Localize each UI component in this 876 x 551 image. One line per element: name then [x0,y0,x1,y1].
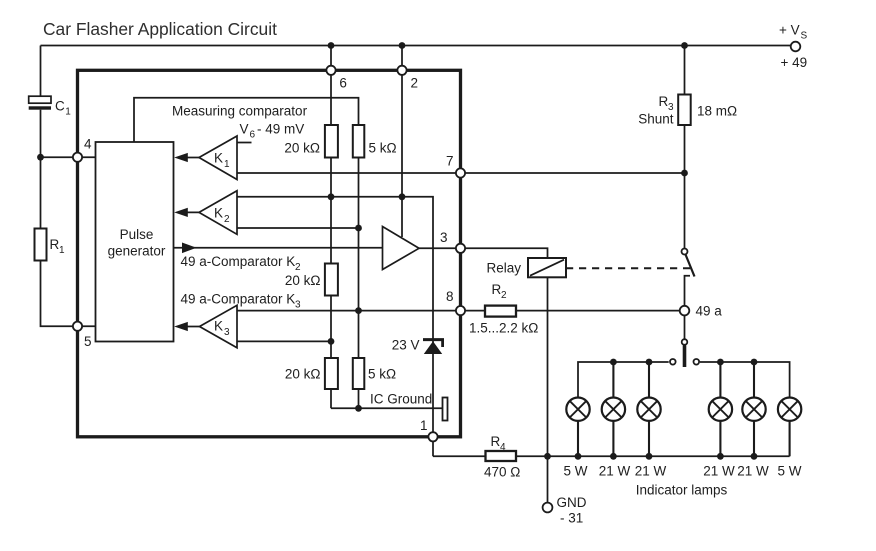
node junction K2bot-5k [355,225,362,232]
svg-text:3: 3 [440,230,448,245]
relay contact lever [686,255,695,277]
svg-text:R: R [50,237,60,252]
svg-text:20 kΩ: 20 kΩ [285,367,321,382]
svg-text:+ V: + V [779,23,800,38]
wire lamp2 top drop [612,362,614,398]
wire pin6 stem [330,46,332,126]
svg-text:3: 3 [224,327,230,338]
wire right lamp bus [700,362,790,398]
svg-text:1: 1 [59,245,65,256]
svg-text:R: R [491,434,501,449]
wire K3 bottom input [237,340,331,342]
svg-text:1: 1 [65,107,71,118]
resistor 5k top [353,125,365,158]
svg-text:1.5...2.2 kΩ: 1.5...2.2 kΩ [469,321,538,336]
wire lamp bottom drops [577,421,579,456]
svg-text:49 a: 49 a [696,304,723,319]
pin 3 [456,244,465,253]
svg-text:21 W: 21 W [737,464,769,479]
svg-text:4: 4 [84,137,92,152]
wire lamp5 top drop [753,362,755,398]
wire divider chain x=331 [330,125,332,408]
relay coil [528,258,566,277]
resistor 20k bottom [325,358,338,389]
svg-text:Car Flasher Application Circui: Car Flasher Application Circuit [43,19,277,39]
pin 8 [456,306,465,315]
node junction K2top-pin2 [399,193,406,200]
node junction K3bot-20k [328,338,335,345]
svg-text:S: S [801,31,808,42]
node junction K2top-20k [328,193,335,200]
svg-text:Pulse: Pulse [120,227,154,242]
svg-text:IC Ground: IC Ground [370,392,432,407]
wire left branch down to C1 [40,46,42,97]
resistor 5k bottom [353,358,365,389]
svg-text:R: R [492,282,502,297]
wire K1 output arrow [180,157,199,159]
wire pulse generator output to driver [174,247,383,249]
resistor R1 [35,229,47,261]
node junction icgnd-5k [355,405,362,412]
wire 5k chain x=358.5 [358,125,360,408]
resistor R3 shunt [684,46,686,249]
svg-text:4: 4 [500,442,506,453]
hazard switch pivot [682,339,688,345]
svg-text:Relay: Relay [486,261,521,276]
wire 49a to hazard switch [684,316,686,340]
wire supply rail top [41,45,791,47]
svg-text:6: 6 [339,76,347,91]
node 49a [680,306,690,316]
wire K2 output arrow [180,211,199,213]
node junction bus-lamp2 [610,359,617,366]
node junction bus lamp4 [717,453,724,460]
lamp L4 21W [709,398,732,421]
svg-text:1: 1 [224,159,230,170]
terminal +VS [791,42,801,52]
wire lamp4 top drop [719,362,721,398]
wire K1 reference stub [237,142,252,144]
wire C1 to node [40,110,42,229]
svg-text:18 mΩ: 18 mΩ [697,104,737,119]
wire relay to ground rail [547,277,549,502]
hazard switch lever [683,346,687,368]
svg-text:49 a-Comparator K: 49 a-Comparator K [181,254,296,269]
relay contact pivot [682,249,688,255]
svg-text:- 49 mV: - 49 mV [257,122,304,137]
svg-text:5 kΩ: 5 kΩ [368,367,396,382]
svg-text:23 V: 23 V [392,338,420,353]
svg-text:3: 3 [295,300,301,311]
pulse generator block [96,142,174,342]
op-amp driver U2 [383,227,420,270]
pin 7 [456,168,465,177]
node junction bus-gnd [544,453,551,460]
svg-text:49 a-Comparator K: 49 a-Comparator K [181,292,296,307]
svg-text:5 kΩ: 5 kΩ [369,141,397,156]
node junction rail-pin2 [399,42,406,49]
svg-text:2: 2 [224,214,230,225]
svg-text:20 kΩ: 20 kΩ [284,141,320,156]
wire driver output to pin3 and relay [419,248,548,258]
node junction bus lamp1 [575,453,582,460]
wire feedback pulse-gen to 5k [134,98,359,142]
wire K2 top input [237,197,433,340]
svg-text:8: 8 [446,289,454,304]
svg-text:5 W: 5 W [777,464,801,479]
op-amp K2 [199,191,237,235]
wire zener to pin1 [432,340,434,457]
svg-text:K: K [214,151,223,166]
svg-text:R: R [659,94,669,109]
svg-text:1: 1 [420,418,428,433]
op-amp K1 [199,136,237,180]
svg-text:GND: GND [557,495,587,510]
svg-text:+ 49: + 49 [781,55,808,70]
hazard switch right contact [694,359,700,365]
wire pin2 stem into driver [401,46,403,238]
svg-text:K: K [214,206,223,221]
svg-text:Shunt: Shunt [638,112,674,127]
node junction bus-lamp3 [646,359,653,366]
pin 5 [73,322,82,331]
wire IC ground rail [331,407,443,409]
dashed link relay to contact [566,267,691,269]
svg-text:5 W: 5 W [563,464,587,479]
node junction rail-pin6 [328,42,335,49]
lamp L2 21W [602,398,625,421]
svg-text:2: 2 [295,262,301,273]
node junction pin7rail-R3 [681,170,688,177]
node junction C1-R1-pin4 [37,154,44,161]
lamp L1 5W [566,398,589,421]
pin 6 [326,66,335,75]
wire lamp3 top drop [648,362,650,398]
svg-text:K: K [214,319,223,334]
svg-text:20 kΩ: 20 kΩ [285,273,321,288]
pin 4 [73,153,82,162]
svg-text:5: 5 [84,334,92,349]
resistor R4 [486,451,517,461]
svg-text:2: 2 [501,290,507,301]
pulse generator output arrowhead [182,243,197,254]
node junction pin8rail-5k [355,307,362,314]
hazard switch left contact [670,359,676,365]
svg-text:21 W: 21 W [635,464,667,479]
zener diode 23V [423,338,444,341]
svg-text:C: C [55,99,65,114]
svg-text:- 31: - 31 [560,511,583,526]
wire left lamp bus [578,362,669,398]
resistor 20k middle [325,264,338,296]
node junction bus lamp3 [646,453,653,460]
lamp L6 5W [778,398,801,421]
lamp L5 21W [742,398,765,421]
node junction bus lamp5 [751,453,758,460]
svg-text:Indicator lamps: Indicator lamps [636,483,728,498]
resistor R2 [485,306,516,317]
wire bottom ground bus R4 rail [433,455,790,457]
wire K2 bottom input [237,227,359,229]
wire node to pin4 [41,156,97,158]
svg-text:V: V [240,122,249,137]
IC ground tab [443,398,448,421]
wire K3 output arrow [180,326,200,328]
svg-text:470 Ω: 470 Ω [484,465,520,480]
svg-text:6: 6 [250,130,256,141]
svg-text:7: 7 [446,154,454,169]
node junction bus lamp2 [610,453,617,460]
resistor 20k top [325,125,338,158]
terminal GND -31 [543,503,553,513]
wire K1 input from pin7 rail [237,172,685,174]
node junction bus-lamp4 [717,359,724,366]
svg-text:2: 2 [411,76,419,91]
IC box U1 [78,70,461,437]
svg-text:21 W: 21 W [599,464,631,479]
pin 1 [428,432,437,441]
svg-text:21 W: 21 W [703,464,735,479]
relay contact fixed terminal [685,276,691,306]
wire K3 top input / pin 8 rail [237,310,680,312]
svg-text:Measuring comparator: Measuring comparator [172,104,308,119]
pin 2 [397,66,406,75]
wire R1 to pin5 [41,261,97,327]
capacitor C1 [29,96,51,103]
node junction rail-R3 [681,42,688,49]
lamp L3 21W [637,398,660,421]
op-amp K3 [200,305,238,348]
node junction bus-lamp5 [751,359,758,366]
svg-text:generator: generator [108,244,166,259]
